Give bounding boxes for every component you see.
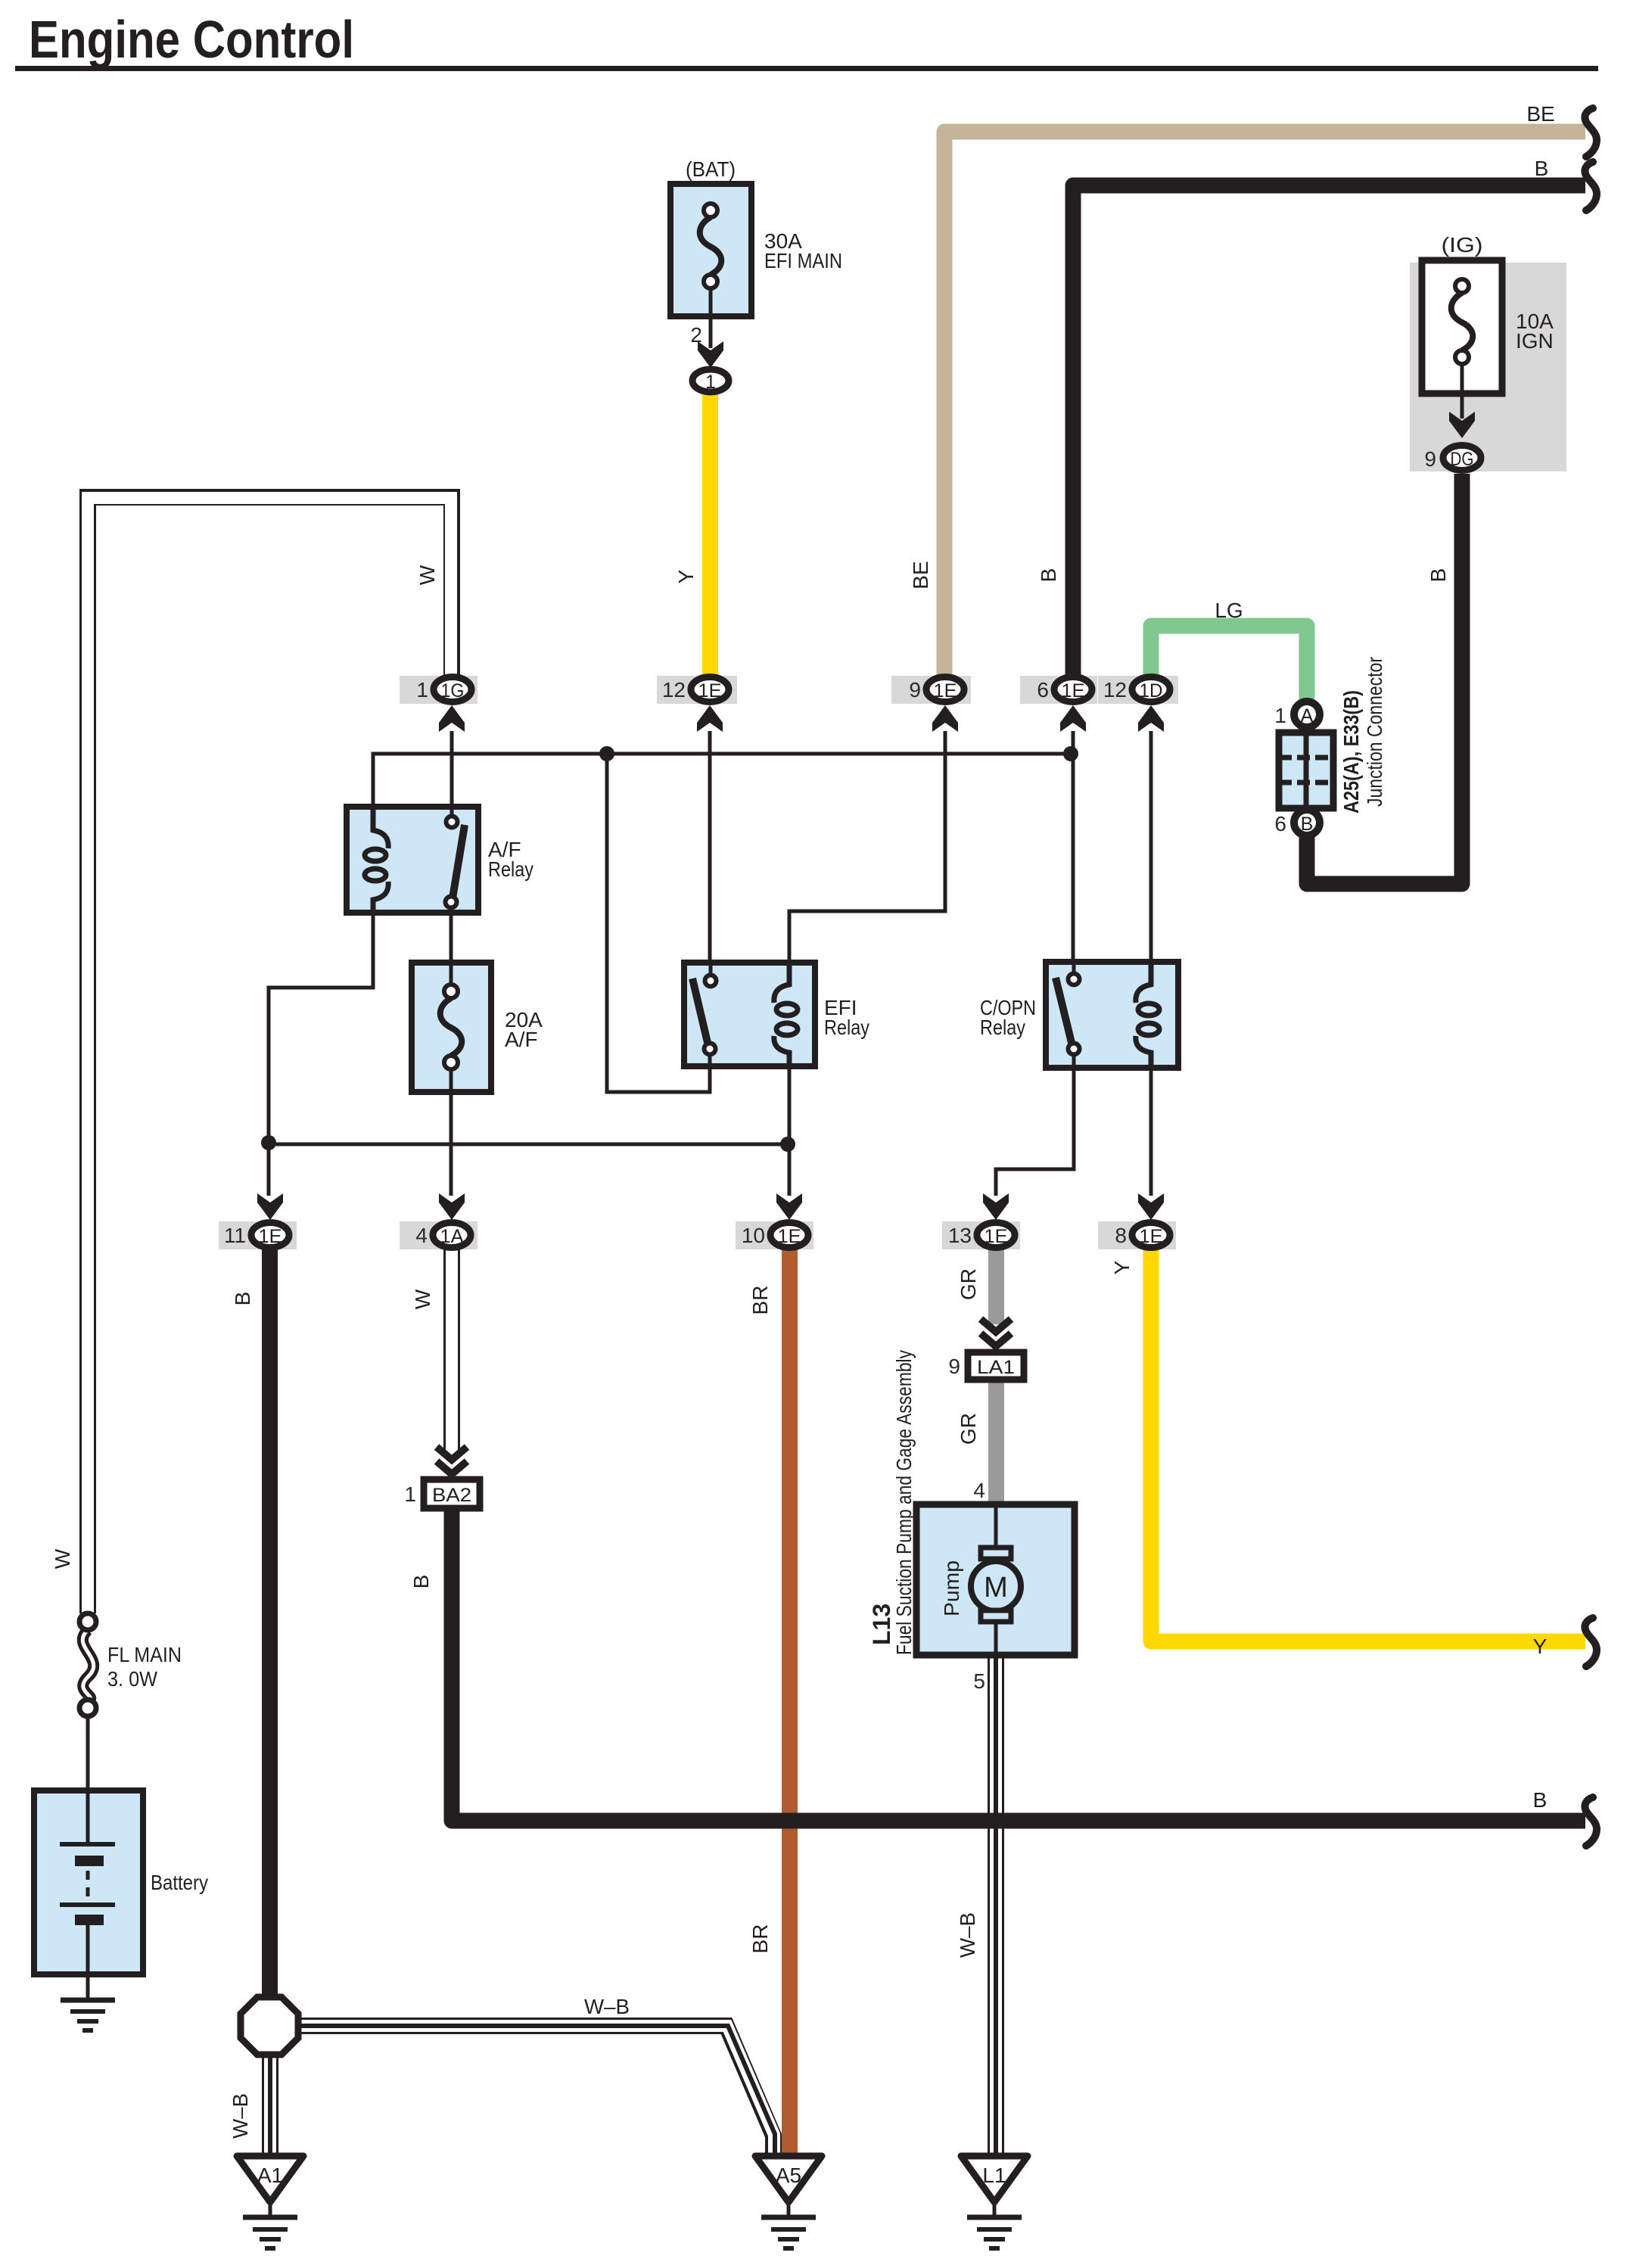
ground below battery xyxy=(61,2000,115,2030)
cut curl BE right end xyxy=(1585,108,1597,157)
svg-text:4: 4 xyxy=(415,1224,428,1247)
wire 6-1E arrow down to C/OPN relay switch top xyxy=(1072,731,1075,980)
svg-text:L1: L1 xyxy=(982,2164,1006,2187)
wire 12-1D arrow down to C/OPN relay coil top xyxy=(1149,731,1153,975)
svg-text:B: B xyxy=(409,1575,433,1589)
svg-text:9: 9 xyxy=(1424,447,1436,471)
cut curl B top right end xyxy=(1585,162,1597,210)
ground A5 xyxy=(755,2156,822,2248)
arrow into connector 1 below BAT fuse xyxy=(698,341,723,368)
svg-text:Battery: Battery xyxy=(151,1871,208,1894)
title Engine Control xyxy=(15,10,1598,71)
svg-text:1: 1 xyxy=(416,678,428,702)
arrows down into lower connector row xyxy=(257,1193,283,1220)
connector oval 1 below BAT fuse xyxy=(692,369,729,393)
svg-text:5: 5 xyxy=(973,1669,985,1693)
IG fuse gray panel xyxy=(1410,263,1566,471)
svg-text:W–B: W–B xyxy=(584,1995,630,2018)
svg-text:1G: 1G xyxy=(441,680,465,702)
wire W-B (pump pin 5 down to ground L1) xyxy=(988,1655,1004,2156)
double chevron above LA1 xyxy=(981,1319,1011,1346)
junction dot at EFI coil drop xyxy=(780,1137,795,1152)
svg-text:12: 12 xyxy=(1103,678,1127,702)
svg-text:12: 12 xyxy=(662,678,686,702)
svg-text:1E: 1E xyxy=(259,1226,282,1247)
connector 1 1G xyxy=(400,676,477,704)
wire BAT fuse to arrow xyxy=(709,288,713,348)
relay EFI xyxy=(684,963,815,1066)
svg-text:BR: BR xyxy=(748,1924,772,1954)
connector 1 BA2 xyxy=(404,1479,480,1508)
svg-text:1: 1 xyxy=(705,372,716,393)
svg-text:B: B xyxy=(1426,568,1450,583)
svg-text:A: A xyxy=(1301,705,1314,726)
svg-text:Relay: Relay xyxy=(488,857,533,881)
ground A1 xyxy=(237,2156,303,2248)
svg-text:Y: Y xyxy=(1533,1635,1548,1658)
svg-text:DG: DG xyxy=(1451,449,1474,470)
svg-text:BA2: BA2 xyxy=(432,1485,471,1506)
svg-text:W–B: W–B xyxy=(229,2093,252,2139)
wire 12-1E arrow down to EFI relay switch top xyxy=(708,731,712,981)
connector 9 LA1 xyxy=(948,1352,1024,1380)
wire branch from bus dot down and right to EFI relay switch bottom xyxy=(607,754,710,1092)
junction dot on bus at 6-1E xyxy=(1063,746,1078,761)
svg-text:B: B xyxy=(1301,814,1314,835)
connector 8 1E (Y) xyxy=(1098,1221,1176,1249)
relay C/OPN xyxy=(1046,962,1178,1068)
svg-text:2: 2 xyxy=(690,323,702,347)
svg-text:1: 1 xyxy=(404,1482,416,1506)
connector 10 1E (BR) xyxy=(736,1221,813,1249)
svg-text:1E: 1E xyxy=(985,1226,1008,1247)
fuse EFI MAIN (BAT) 30A xyxy=(670,184,751,316)
svg-text:1E: 1E xyxy=(1062,680,1085,702)
double chevron above BA2 xyxy=(437,1447,467,1474)
svg-text:W: W xyxy=(51,1548,74,1569)
connector 11 1E (B) xyxy=(219,1221,297,1249)
svg-text:B: B xyxy=(1037,568,1060,583)
ground L1 xyxy=(961,2156,1028,2248)
wire bus2 from 11-1E drop to EFI coil drop xyxy=(269,1143,788,1146)
battery xyxy=(34,1790,143,1974)
wire C/OPN switch bottom down left down to 13-1E xyxy=(996,1066,1074,1196)
svg-text:FL MAIN: FL MAIN xyxy=(107,1643,182,1666)
svg-text:(IG): (IG) xyxy=(1442,233,1483,257)
wire C/OPN coil bottom down to 8-1E xyxy=(1149,1063,1153,1196)
fuse A/F 20A xyxy=(412,963,491,1092)
svg-text:W: W xyxy=(411,1289,434,1309)
svg-text:4: 4 xyxy=(973,1479,985,1502)
svg-text:9: 9 xyxy=(909,678,921,702)
svg-text:1E: 1E xyxy=(1140,1226,1163,1247)
svg-text:13: 13 xyxy=(948,1224,972,1247)
connector 12 1D (LG) xyxy=(1098,676,1178,704)
svg-text:(BAT): (BAT) xyxy=(686,157,736,181)
fuse IGN (IG) 10A xyxy=(1422,260,1502,394)
svg-text:1E: 1E xyxy=(934,680,957,702)
wire Y (C/OPN coil 8-1E down and right to cut) xyxy=(1151,1250,1585,1641)
pump assembly L13 xyxy=(916,1504,1075,1655)
svg-text:A25(A), E33(B): A25(A), E33(B) xyxy=(1339,690,1363,814)
svg-text:Pump: Pump xyxy=(940,1560,963,1616)
svg-text:B: B xyxy=(231,1292,254,1306)
arrows up into top connector row xyxy=(439,705,465,732)
thin wires xyxy=(88,288,1462,2000)
svg-text:BE: BE xyxy=(909,561,932,589)
wire IG fuse to arrow xyxy=(1460,394,1464,418)
wire battery to ground xyxy=(86,1974,90,2000)
svg-text:GR: GR xyxy=(957,1268,980,1300)
wire BR (10-1E down to ground A5) xyxy=(782,1249,798,2155)
connector 13 1E (GR) xyxy=(942,1221,1020,1249)
svg-text:Engine Control: Engine Control xyxy=(29,10,354,69)
svg-text:B: B xyxy=(1533,1788,1548,1812)
svg-text:LA1: LA1 xyxy=(977,1357,1015,1378)
connector 12 1E (yellow) xyxy=(657,676,737,704)
svg-text:W–B: W–B xyxy=(956,1912,979,1958)
svg-text:11: 11 xyxy=(224,1224,246,1247)
cut curl Y right end xyxy=(1585,1618,1597,1666)
wire A/F coil bottom down left down to 11-1E xyxy=(269,913,373,1196)
svg-text:W: W xyxy=(415,565,439,585)
wire motor to pump bottom xyxy=(994,1626,998,1655)
svg-text:1A: 1A xyxy=(440,1226,464,1247)
svg-text:A/F: A/F xyxy=(505,1028,538,1051)
wire W-B (octagon right then diagonal to ground A5) xyxy=(297,2026,775,2156)
connector 9 1E (BE) xyxy=(891,676,971,704)
wire A/F switch bottom to 20A fuse xyxy=(449,913,453,963)
svg-text:Y: Y xyxy=(1110,1260,1134,1274)
svg-text:1E: 1E xyxy=(778,1226,801,1247)
svg-text:10: 10 xyxy=(742,1224,765,1247)
wire GR (13-1E to LA1) xyxy=(988,1249,1004,1324)
svg-text:1D: 1D xyxy=(1140,680,1163,702)
svg-text:1: 1 xyxy=(1274,704,1286,727)
svg-text:BR: BR xyxy=(748,1286,772,1315)
arrow into DG below IG fuse xyxy=(1449,412,1475,438)
svg-text:3. 0W: 3. 0W xyxy=(107,1667,158,1691)
wire B thick (11-1E down to octagon splice) xyxy=(262,1249,278,2002)
fusible link FL MAIN 3.0W xyxy=(79,1613,96,1716)
svg-text:Junction Connector: Junction Connector xyxy=(1363,657,1386,807)
connector 9 DG below IG fuse xyxy=(1443,446,1481,471)
svg-text:IGN: IGN xyxy=(1516,329,1554,353)
wire FL MAIN to battery xyxy=(86,1715,90,1794)
svg-text:B: B xyxy=(1535,157,1549,180)
connector 6 1E (B) xyxy=(1020,676,1097,704)
svg-text:EFI MAIN: EFI MAIN xyxy=(764,249,842,272)
junction connector A25(A) E33(B) xyxy=(1279,702,1333,835)
wire GR (LA1 to pump pin 4) xyxy=(988,1379,1004,1506)
wire battery plates xyxy=(86,1794,90,1974)
svg-text:M: M xyxy=(984,1572,1008,1604)
svg-text:A5: A5 xyxy=(776,2164,801,2187)
wire W white (FL MAIN up, over and down to 1-1G) xyxy=(88,497,452,1613)
connector 4 1A (W) xyxy=(400,1221,477,1249)
svg-text:1E: 1E xyxy=(698,680,722,702)
svg-text:LG: LG xyxy=(1215,599,1243,622)
wire LG (12-1D to junction connector A) xyxy=(1151,626,1307,699)
svg-text:Fuel Suction Pump and Gage Ass: Fuel Suction Pump and Gage Assembly xyxy=(892,1350,916,1655)
svg-text:Relay: Relay xyxy=(980,1016,1025,1039)
wire 1G arrow down to A/F relay switch top xyxy=(450,731,454,822)
wire B thick (BA2 down then right to cut) xyxy=(452,1507,1585,1821)
cut curl B bottom right end xyxy=(1585,1797,1597,1846)
wire B top (6-1E up and right to cut) xyxy=(1073,185,1585,704)
svg-text:6: 6 xyxy=(1274,812,1286,835)
svg-text:BE: BE xyxy=(1526,102,1554,126)
wire 9-1E arrow down then left to EFI relay coil top xyxy=(789,731,945,978)
wire BE (9-1E up and right to cut) xyxy=(944,132,1585,704)
svg-text:L13: L13 xyxy=(868,1604,895,1645)
junction dot on bus at EFI branch xyxy=(599,746,614,761)
wire pump pin4 into motor xyxy=(994,1504,998,1550)
svg-text:A1: A1 xyxy=(257,2164,283,2187)
svg-text:GR: GR xyxy=(957,1413,980,1445)
svg-text:Y: Y xyxy=(674,569,698,583)
wire bus from A/F coil top across to 6-1E drop xyxy=(373,754,1071,807)
svg-text:6: 6 xyxy=(1037,678,1049,702)
wire W white (4-1A down to BA2 chevron) xyxy=(443,1249,460,1450)
junction dot at 11-1E branch xyxy=(261,1135,276,1150)
svg-text:8: 8 xyxy=(1115,1224,1127,1247)
wire 20A fuse bottom down to 4-1A xyxy=(449,1092,453,1196)
svg-text:Relay: Relay xyxy=(824,1016,869,1039)
svg-text:9: 9 xyxy=(948,1355,960,1378)
octagon splice xyxy=(241,1997,298,2055)
relay A/F xyxy=(347,807,478,913)
wire Y (EFI MAIN fuse to 12-1E) xyxy=(702,394,718,677)
wire EFI coil bottom down to 10-1E xyxy=(788,1063,792,1196)
wire B from IG fuse DG down to junction connector B xyxy=(1307,474,1462,884)
wire B thick from junction connector B going down-right offpage xyxy=(1299,835,1315,884)
wire W-B (octagon down to ground A1) xyxy=(262,2052,278,2155)
